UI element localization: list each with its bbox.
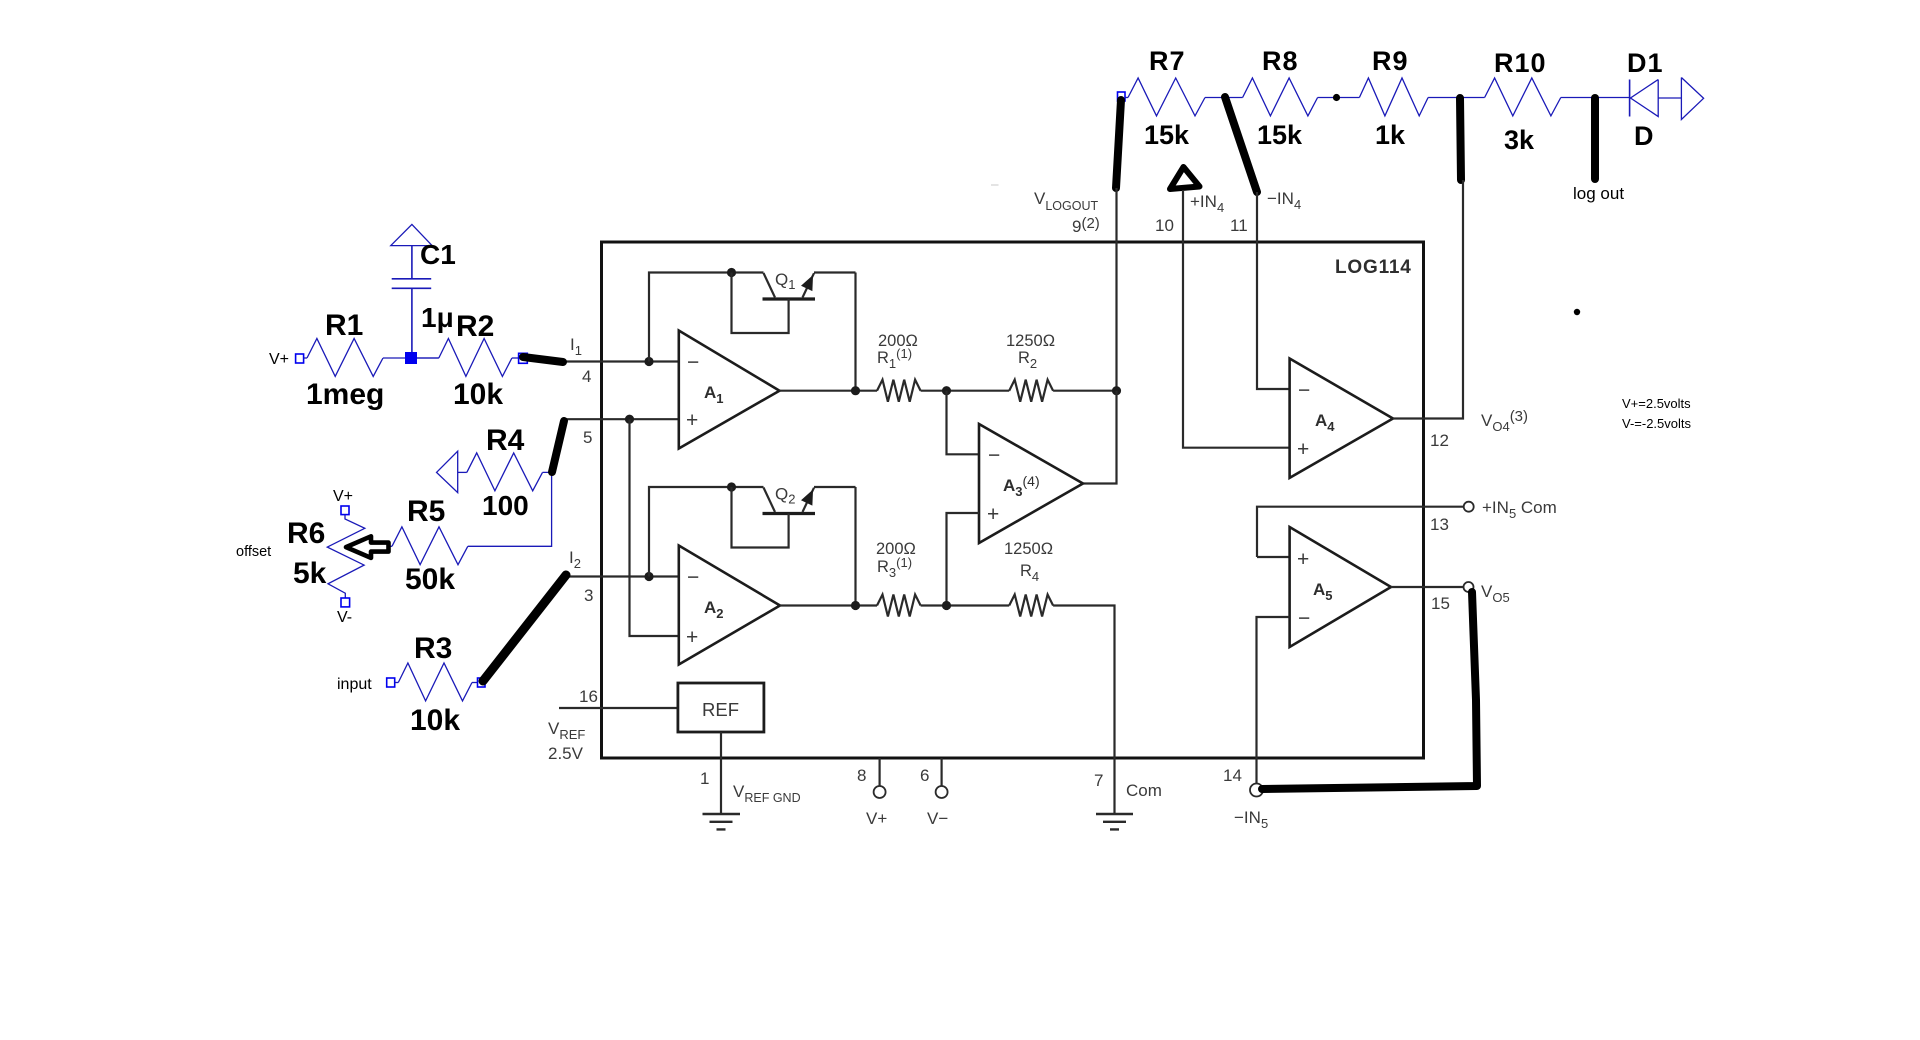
resistor R1 1meg — [306, 309, 384, 411]
svg-text:R10: R10 — [1494, 48, 1547, 78]
node +IN4 bold triangle (ground arrow) — [1170, 167, 1200, 189]
svg-text:+: + — [1297, 438, 1309, 461]
wire pin11 vertical — [1257, 192, 1290, 389]
svg-text:15k: 15k — [1144, 120, 1190, 150]
resistor R2 10k — [417, 310, 519, 411]
svg-text:5k: 5k — [293, 557, 327, 590]
ground at pin 7 — [1096, 814, 1133, 829]
svg-text:−: − — [1298, 379, 1310, 402]
wire R1-R2 internal — [921, 390, 1010, 392]
svg-text:1μ: 1μ — [421, 302, 454, 333]
node I1 terminal square — [519, 353, 528, 363]
svg-text:D1: D1 — [1627, 48, 1664, 78]
node VLOGOUT terminal square — [1118, 92, 1126, 101]
node dot R1/R2 junction — [942, 386, 951, 395]
wire A5 output to VO5 — [1391, 586, 1464, 588]
wire A1 output to Q1 emitter branch — [780, 273, 878, 391]
wire R8-R9 with junction — [1318, 97, 1360, 99]
wire R2 to pin9 node — [1053, 390, 1116, 392]
svg-text:10k: 10k — [453, 378, 503, 411]
svg-text:V−: V− — [927, 809, 948, 828]
wire R1 to junction — [383, 357, 439, 359]
node junction dot I1 — [644, 357, 653, 366]
svg-text:2.5V: 2.5V — [548, 744, 584, 763]
wire A3 plus feed — [947, 513, 980, 606]
wire R4 to Com pin7 — [1053, 606, 1114, 814]
node +IN5 circle pin 13 — [1464, 502, 1474, 512]
REF box — [678, 683, 764, 732]
wire R10-D1 — [1561, 97, 1630, 99]
wire pin16 row — [559, 707, 678, 709]
wire pin5 row — [563, 418, 679, 420]
op-amp A3 — [979, 424, 1083, 543]
svg-text:10: 10 — [1155, 216, 1174, 235]
capacitor C1 — [391, 224, 456, 352]
stray ink dot — [1574, 309, 1580, 315]
faint dash — [991, 184, 999, 185]
op-amp A2 — [679, 546, 780, 665]
wire thick stroke R2 to pin4 — [523, 357, 563, 362]
wire REF to ground pin1 — [720, 732, 722, 814]
svg-text:R6: R6 — [287, 517, 325, 550]
svg-text:3k: 3k — [1504, 125, 1535, 155]
node junction dot I2 — [644, 572, 653, 581]
svg-text:15k: 15k — [1257, 120, 1303, 150]
node R5 left terminal square — [376, 542, 384, 551]
svg-text:Com: Com — [1126, 781, 1162, 800]
node dot A1 out — [851, 386, 860, 395]
svg-text:1: 1 — [700, 769, 709, 788]
wire R9-R10 — [1428, 97, 1485, 99]
svg-text:+: + — [686, 409, 698, 432]
wire A2 output — [780, 487, 877, 606]
svg-text:4: 4 — [582, 367, 591, 386]
svg-text:16: 16 — [579, 687, 598, 706]
resistor R9 — [1359, 46, 1428, 150]
wire A4 output to VO4 — [1393, 180, 1463, 419]
svg-text:R7: R7 — [1149, 46, 1186, 76]
svg-text:12: 12 — [1430, 431, 1449, 450]
node dot A2 out — [851, 601, 860, 610]
svg-text:V+: V+ — [866, 809, 887, 828]
svg-text:V+=2.5volts: V+=2.5volts — [1622, 396, 1691, 411]
wire R3-R4 internal — [921, 604, 1010, 606]
svg-text:8: 8 — [857, 766, 866, 785]
svg-text:R3: R3 — [414, 632, 452, 665]
svg-text:1meg: 1meg — [306, 378, 384, 411]
svg-text:R8: R8 — [1262, 46, 1299, 76]
resistor R3 internal 200ohm — [876, 540, 921, 617]
svg-text:−: − — [1298, 607, 1310, 630]
wire pin10 vertical — [1183, 190, 1290, 448]
resistor R4 internal 1250ohm — [1004, 540, 1053, 617]
svg-text:−: − — [988, 444, 1000, 467]
svg-text:+: + — [987, 503, 999, 526]
node R3 right terminal square — [478, 678, 486, 687]
svg-text:3: 3 — [584, 586, 593, 605]
node pin14 circle — [1250, 784, 1263, 797]
svg-text:13: 13 — [1430, 515, 1449, 534]
transistor Q2 — [649, 482, 856, 576]
svg-text:R2: R2 — [456, 310, 494, 343]
svg-text:11: 11 — [1230, 216, 1248, 235]
wire R7-R8 — [1205, 97, 1243, 99]
wire thick stroke log out stub — [1591, 98, 1599, 179]
svg-text:R4: R4 — [486, 424, 525, 457]
pin 6 stub and circle — [936, 758, 948, 798]
svg-text:−: − — [687, 351, 699, 374]
node VO5 circle pin 15 — [1464, 582, 1474, 592]
svg-text:5: 5 — [583, 428, 592, 447]
svg-text:−: − — [687, 566, 699, 589]
resistor R3 10k — [395, 632, 478, 737]
node dot R3/R4 junction — [942, 601, 951, 610]
resistor R8 — [1243, 46, 1318, 150]
wire thick stroke VO5 down to -IN5 — [1262, 592, 1477, 789]
node R6 wiper thick arrow — [346, 536, 389, 558]
op-amp A4 — [1290, 359, 1393, 478]
resistor R1 internal 200ohm — [877, 332, 921, 402]
svg-text:V-=-2.5volts: V-=-2.5volts — [1622, 416, 1692, 431]
wire thick stroke from R9/R10 junction down to VO4 line — [1460, 98, 1461, 180]
svg-text:1250Ω: 1250Ω — [1006, 332, 1055, 350]
potentiometer R6 5k — [287, 488, 365, 626]
svg-text:V-: V- — [337, 609, 352, 626]
svg-text:V+: V+ — [333, 488, 353, 505]
wire thick stroke from R7/R8 junction down to -IN4 — [1225, 97, 1257, 192]
svg-text:V+: V+ — [269, 351, 289, 368]
wire +IN5 row — [1257, 507, 1464, 557]
op-amp A5 — [1290, 527, 1391, 647]
resistor R4 100 with arrow — [437, 424, 543, 521]
svg-text:10k: 10k — [410, 704, 460, 737]
wire I1 input row (pin 4) — [563, 360, 679, 362]
svg-text:LOG114: LOG114 — [1335, 257, 1412, 278]
wire thick stroke R3 to I2 pin3 — [483, 575, 566, 681]
svg-text:+: + — [686, 626, 698, 649]
svg-text:1k: 1k — [1375, 120, 1406, 150]
svg-text:R5: R5 — [407, 495, 445, 528]
wire pin9 VLOGOUT vertical — [1115, 188, 1117, 391]
svg-text:15: 15 — [1431, 594, 1450, 613]
svg-text:14: 14 — [1223, 766, 1242, 785]
wire pin9 node down to A3 output — [1083, 391, 1117, 484]
resistor R10 — [1485, 48, 1561, 155]
svg-text:REF: REF — [702, 699, 739, 720]
svg-text:6: 6 — [920, 766, 929, 785]
wire thick stroke R4 up to pin5 — [552, 421, 564, 472]
diode D1 — [1627, 48, 1704, 151]
svg-text:50k: 50k — [405, 563, 455, 596]
wire thick stroke VLOGOUT down from R7 left — [1116, 100, 1121, 188]
wire R4 right to R5 row — [468, 472, 552, 546]
wire A3 minus feed — [947, 391, 980, 455]
node input terminal square — [387, 678, 395, 687]
node dot between R8 and R9 — [1333, 94, 1340, 101]
svg-text:offset: offset — [236, 544, 271, 560]
resistor R5 50k — [383, 495, 468, 596]
node junction square C1/R1/R2 — [405, 352, 417, 364]
wire A5 minus to pin14 — [1257, 617, 1290, 784]
wire vertical pin5 to A2 plus — [630, 419, 679, 636]
svg-text:+: + — [1297, 548, 1309, 571]
svg-text:R9: R9 — [1372, 46, 1409, 76]
node V+ terminal — [296, 354, 304, 363]
wire — [304, 357, 307, 359]
op-amp A1 — [679, 331, 780, 449]
ground at pin 1 — [703, 814, 741, 829]
svg-text:R1: R1 — [325, 309, 363, 342]
svg-text:log out: log out — [1573, 184, 1624, 203]
LOG114 IC box outline — [602, 242, 1424, 758]
transistor Q1 — [649, 268, 856, 362]
svg-text:C1: C1 — [420, 239, 456, 270]
svg-text:1250Ω: 1250Ω — [1004, 540, 1053, 558]
resistor R2 internal 1250ohm — [1006, 332, 1055, 402]
resistor R7 — [1128, 46, 1205, 150]
wire — [1125, 97, 1128, 99]
wire I2 input row (pin 3) — [566, 575, 679, 577]
svg-text:D: D — [1634, 121, 1654, 151]
svg-text:100: 100 — [482, 490, 529, 521]
node junction dot pin5 — [625, 415, 634, 424]
svg-text:input: input — [337, 676, 372, 693]
pin 8 stub and circle — [874, 758, 886, 798]
node dot R2 right — [1112, 386, 1121, 395]
svg-text:7: 7 — [1094, 771, 1103, 790]
